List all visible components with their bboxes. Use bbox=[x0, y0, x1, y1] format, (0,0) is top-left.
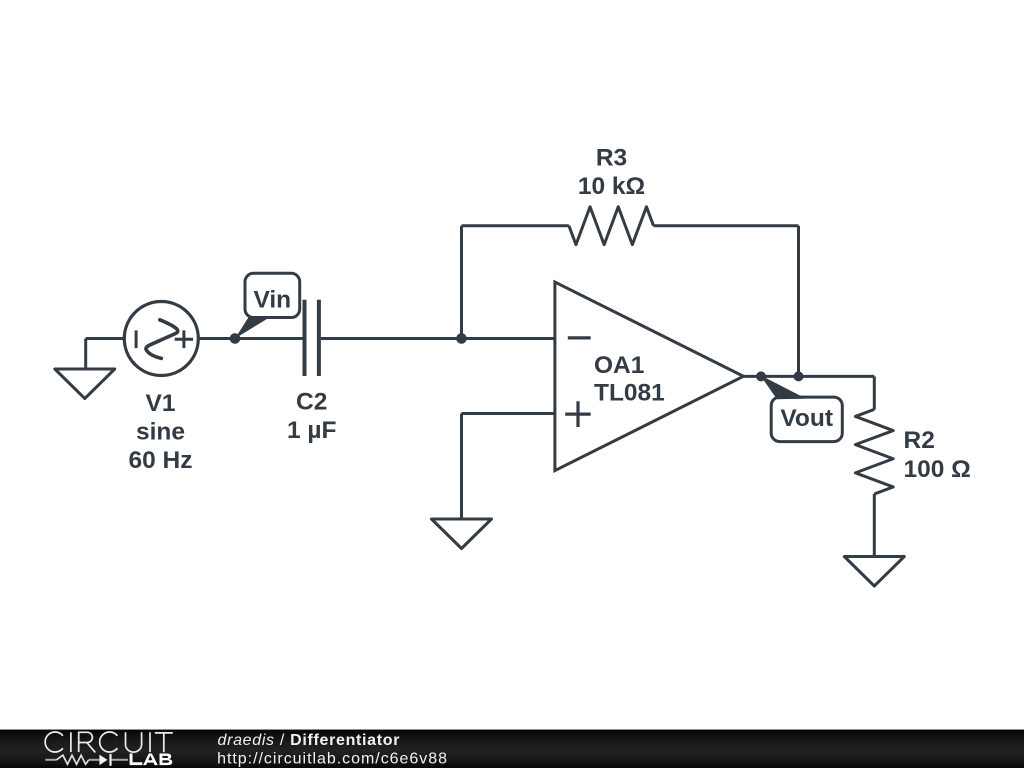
ground G1 (V1 negative terminal) bbox=[55, 369, 115, 399]
CircuitLab logo letter R bbox=[79, 732, 96, 752]
capacitor C2 left plate bbox=[303, 300, 307, 376]
CircuitLab logo wordmark LAB letter A bbox=[143, 754, 158, 766]
V1 minus terminal bar bbox=[135, 330, 138, 348]
wire non-inverting input bbox=[462, 412, 555, 415]
flag Vout callout box bbox=[771, 397, 842, 442]
op-amp OA1 triangle body bbox=[555, 282, 744, 471]
CircuitLab logo diode triangle bbox=[99, 755, 107, 766]
wire feedback right drop bbox=[797, 226, 800, 377]
svg-text:V1: V1 bbox=[146, 390, 176, 417]
ground G2 (op-amp + input) bbox=[432, 519, 492, 549]
flag Vin callout tail bbox=[235, 317, 271, 339]
svg-text:Vin: Vin bbox=[253, 286, 291, 313]
CircuitLab logo wordmark LAB letter L bbox=[130, 754, 143, 766]
svg-text:R2: R2 bbox=[904, 427, 935, 454]
voltage source V1 circle bbox=[124, 302, 198, 376]
CircuitLab logo resistor zigzag bbox=[57, 755, 89, 764]
capacitor C2 right plate bbox=[317, 300, 321, 376]
svg-text:TL081: TL081 bbox=[594, 380, 665, 407]
svg-text:http://circuitlab.com/c6e6v88: http://circuitlab.com/c6e6v88 bbox=[217, 751, 448, 768]
wire V1 left lead bbox=[86, 337, 125, 340]
flag Vin callout box bbox=[245, 273, 300, 317]
svg-text:10 kΩ: 10 kΩ bbox=[578, 173, 645, 200]
footer bar bbox=[0, 730, 1024, 768]
ground G3 (below R2) bbox=[844, 557, 904, 587]
CircuitLab logo letter I bbox=[70, 732, 72, 752]
CircuitLab logo lead wire middle bbox=[89, 759, 100, 761]
node output junction dot (Vout) bbox=[756, 371, 766, 381]
node A junction dot (Vin) bbox=[230, 333, 241, 344]
V1 sine wave symbol bbox=[146, 320, 178, 359]
CircuitLab logo letter C bbox=[100, 732, 118, 752]
op-amp inverting input minus sign bbox=[568, 336, 591, 339]
node feedback junction dot bbox=[794, 371, 804, 381]
CircuitLab logo lead wire left bbox=[45, 759, 56, 761]
CircuitLab logo diode cathode bar bbox=[109, 754, 111, 766]
wire V1 right lead to node Vin bbox=[198, 337, 302, 340]
wire output drop to R2 bbox=[873, 376, 876, 409]
wire C2 to node B bbox=[321, 337, 555, 340]
wire feedback riser bbox=[460, 226, 463, 339]
svg-text:draedis / Differentiator: draedis / Differentiator bbox=[218, 732, 401, 749]
op-amp non-inverting input plus sign bbox=[565, 401, 591, 427]
wire feedback top right bbox=[654, 224, 799, 227]
svg-text:sine: sine bbox=[136, 419, 185, 446]
svg-text:C2: C2 bbox=[296, 388, 327, 415]
svg-text:Vout: Vout bbox=[780, 405, 833, 432]
svg-text:100 Ω: 100 Ω bbox=[904, 456, 971, 483]
wire V1 ground drop bbox=[84, 339, 87, 370]
V1 plus terminal sign bbox=[175, 330, 193, 348]
CircuitLab logo letter T bbox=[155, 733, 173, 752]
CircuitLab logo letter I bbox=[149, 732, 151, 752]
svg-text:1 µF: 1 µF bbox=[287, 417, 337, 444]
resistor R2 zigzag bbox=[855, 409, 893, 494]
node B junction dot (inverting input node) bbox=[456, 333, 467, 344]
svg-text:R3: R3 bbox=[596, 145, 627, 172]
CircuitLab logo wordmark LAB letter B bbox=[160, 754, 173, 766]
flag Vout callout tail bbox=[760, 375, 806, 399]
wire non-inverting ground drop bbox=[460, 414, 463, 520]
svg-text:60 Hz: 60 Hz bbox=[128, 447, 192, 474]
CircuitLab logo letter U bbox=[126, 732, 142, 752]
resistor R3 zigzag bbox=[569, 207, 654, 245]
svg-text:OA1: OA1 bbox=[594, 352, 644, 379]
wire op-amp output bbox=[743, 375, 874, 378]
wire feedback top left bbox=[462, 224, 569, 227]
wire R2 to ground bbox=[873, 494, 876, 557]
CircuitLab logo letter C bbox=[45, 732, 63, 752]
CircuitLab logo lead wire right bbox=[112, 759, 128, 761]
